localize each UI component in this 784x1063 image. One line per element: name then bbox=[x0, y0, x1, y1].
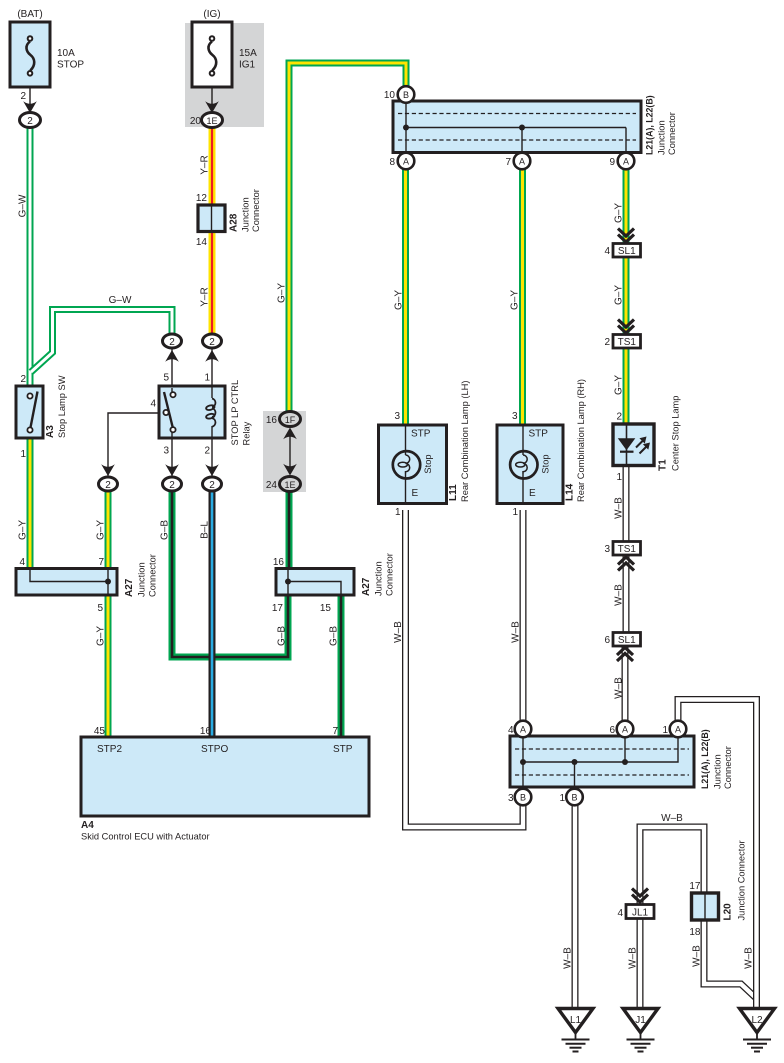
pin 1 label relay bbox=[204, 373, 210, 384]
svg-text:G–Y: G–Y bbox=[96, 520, 107, 540]
svg-text:B: B bbox=[403, 90, 409, 100]
pin 3 label relay bbox=[163, 446, 169, 457]
wire G-Y relay pin 4 branch to A27 pin 7 bbox=[105, 491, 112, 570]
svg-text:STPO: STPO bbox=[201, 744, 228, 755]
wire Y-R fuse IG1 to A28 pin 12 bbox=[209, 127, 216, 206]
svg-text:14: 14 bbox=[196, 237, 208, 248]
wire G-Y TS1 to T1 pin 2 bbox=[623, 348, 630, 425]
pin 18 label L20 bbox=[689, 927, 701, 938]
svg-text:W–B: W–B bbox=[563, 947, 574, 969]
svg-text:TS1: TS1 bbox=[618, 544, 637, 555]
svg-text:17: 17 bbox=[689, 881, 701, 892]
svg-text:2: 2 bbox=[20, 91, 26, 102]
svg-text:6: 6 bbox=[604, 635, 610, 646]
wire G-Y connector 1F to junction connector L21 pin 10 bbox=[289, 63, 406, 412]
pin 2 label T1 bbox=[616, 412, 622, 423]
svg-text:L14: L14 bbox=[565, 483, 576, 501]
node B circle pin 1 bottom JC bbox=[566, 789, 583, 806]
wire label G-Y A27 pin5 bbox=[96, 626, 107, 646]
wire W-B L21 pin 1(B) to ground L1 bbox=[572, 805, 579, 1010]
relay STOP LP CTRL bbox=[108, 349, 225, 477]
pin 1 label T1 bbox=[616, 472, 622, 483]
svg-text:STOP: STOP bbox=[57, 60, 84, 71]
arrow up into oval at relay pin 1 bbox=[205, 350, 219, 362]
svg-text:G–Y: G–Y bbox=[614, 285, 625, 305]
wire label G-Y between SL1 TS1 bbox=[614, 285, 625, 305]
svg-text:2: 2 bbox=[204, 446, 210, 457]
wire label W-B SL1 to L21 bbox=[614, 677, 625, 699]
svg-text:2: 2 bbox=[169, 480, 175, 491]
arrow up into oval at relay pin 5 bbox=[165, 350, 179, 362]
svg-text:12: 12 bbox=[196, 193, 208, 204]
svg-text:W–B: W–B bbox=[614, 497, 625, 519]
node 2 oval below relay pin 4 branch bbox=[99, 477, 118, 491]
svg-text:Junction: Junction bbox=[657, 120, 667, 155]
pin 24 label 1E bbox=[266, 480, 278, 491]
label L20 Junction Connector bbox=[723, 840, 747, 920]
svg-text:E: E bbox=[529, 488, 536, 499]
wire label W-B L14 down bbox=[511, 621, 522, 643]
pin 16 label A27 right bbox=[273, 557, 285, 568]
svg-text:G–Y: G–Y bbox=[614, 203, 625, 223]
svg-text:2: 2 bbox=[105, 480, 111, 491]
svg-text:Connector: Connector bbox=[148, 554, 158, 597]
wire G-Y A3 pin 1 to A27 pin 4 bbox=[27, 438, 34, 570]
wire Y-R A28 pin 14 to relay pin 1 bbox=[209, 231, 216, 335]
node 1E connector oval below IG fuse, pin 20 bbox=[202, 113, 223, 128]
svg-text:B: B bbox=[571, 793, 577, 803]
svg-text:Rear Combination Lamp (LH): Rear Combination Lamp (LH) bbox=[460, 381, 470, 502]
wire label W-B J1 bbox=[628, 947, 639, 969]
chevron arrows up below TS1 lower bbox=[618, 557, 634, 571]
svg-text:Connector: Connector bbox=[723, 746, 733, 789]
pin 1 label L11 bbox=[395, 507, 401, 518]
wire G-Y SL1 to TS1 pin 2 bbox=[623, 256, 630, 335]
lamp L14 Rear Combination Lamp RH bbox=[497, 425, 563, 504]
label A28 Junction Connector bbox=[229, 189, 262, 232]
fuse 10A STOP (BAT) bbox=[10, 22, 50, 114]
svg-text:Skid Control ECU with Actuator: Skid Control ECU with Actuator bbox=[81, 832, 210, 842]
svg-text:17: 17 bbox=[272, 603, 284, 614]
arrow down into oval at relay pin 3 bbox=[165, 464, 179, 476]
junction connector L21(A) L22(B) top bbox=[393, 101, 641, 153]
wire W-B SL1 to L21 pin 6(A) bbox=[622, 645, 629, 723]
double arrow link between 1F and 1E bbox=[283, 428, 297, 476]
pin 1 label L14 bbox=[512, 507, 518, 518]
pin 1 label A3 bbox=[20, 449, 26, 460]
svg-text:9: 9 bbox=[609, 157, 615, 168]
junction connector A27 left bbox=[16, 569, 117, 596]
label 10A STOP bbox=[57, 48, 84, 71]
svg-text:G–Y: G–Y bbox=[614, 375, 625, 395]
svg-text:7: 7 bbox=[505, 157, 511, 168]
svg-text:A: A bbox=[520, 725, 526, 735]
wire label G-W vertical bbox=[18, 194, 29, 217]
node A circle pin 1 bottom JC bbox=[670, 721, 687, 738]
svg-text:3: 3 bbox=[508, 793, 514, 804]
pin 7 label L21 top bbox=[505, 157, 511, 168]
chevron arrows above TS1 bbox=[618, 320, 634, 334]
svg-text:G–W: G–W bbox=[109, 295, 132, 306]
svg-text:4: 4 bbox=[604, 246, 610, 257]
wire G-W branch to relay pin 5 bbox=[31, 310, 172, 373]
wire W-B L20 pin 18 to ground L2 bbox=[704, 919, 757, 999]
wire B-L relay pin 2 to A4 pin 16 bbox=[209, 491, 216, 738]
pin 3 label L11 bbox=[394, 411, 400, 422]
svg-text:Connector: Connector bbox=[667, 112, 677, 155]
svg-text:L1: L1 bbox=[570, 1015, 582, 1026]
svg-text:3: 3 bbox=[512, 411, 518, 422]
svg-text:B: B bbox=[520, 793, 526, 803]
wire W-B T1 pin 1 to TS1 pin 3 bbox=[623, 465, 630, 543]
svg-text:10: 10 bbox=[384, 90, 396, 101]
svg-text:1: 1 bbox=[512, 507, 518, 518]
switch A3 Stop Lamp SW bbox=[16, 386, 43, 438]
svg-text:A: A bbox=[403, 157, 409, 167]
svg-text:W–B: W–B bbox=[511, 621, 522, 643]
wire label W-B right edge bbox=[744, 947, 755, 969]
svg-text:W–B: W–B bbox=[744, 947, 755, 969]
svg-text:2: 2 bbox=[604, 337, 610, 348]
svg-text:A: A bbox=[622, 725, 628, 735]
svg-text:15A: 15A bbox=[239, 48, 257, 59]
svg-text:18: 18 bbox=[689, 927, 701, 938]
pin 45 label A4 bbox=[94, 726, 106, 737]
svg-text:G–Y: G–Y bbox=[277, 283, 288, 303]
svg-text:2: 2 bbox=[169, 337, 175, 348]
connector TS1 pin 3 bbox=[613, 542, 641, 556]
svg-text:1E: 1E bbox=[284, 480, 295, 490]
wire label G-Y riser to L21 bbox=[277, 283, 288, 303]
svg-text:W–B: W–B bbox=[661, 813, 683, 824]
ECU A4 Skid Control ECU with Actuator bbox=[81, 737, 369, 816]
svg-text:STOP LP CTRL: STOP LP CTRL bbox=[230, 380, 240, 446]
pin 3 label TS1 lower bbox=[604, 544, 610, 555]
pin 5 label relay bbox=[163, 373, 169, 384]
svg-text:1E: 1E bbox=[206, 116, 217, 126]
svg-text:L21(A), L22(B): L21(A), L22(B) bbox=[700, 729, 710, 789]
svg-text:STP: STP bbox=[333, 744, 353, 755]
wire W-B TS1 to SL1 pin 6 bbox=[623, 554, 630, 634]
wire label G-Y above SL1 bbox=[614, 203, 625, 223]
svg-text:J1: J1 bbox=[635, 1015, 646, 1026]
svg-text:G–W: G–W bbox=[18, 194, 29, 217]
wire label G-Y to L11 bbox=[394, 290, 405, 310]
svg-text:(IG): (IG) bbox=[203, 9, 220, 20]
svg-text:G–B: G–B bbox=[277, 626, 288, 646]
pin 4 label relay bbox=[150, 399, 156, 410]
svg-text:W–B: W–B bbox=[614, 584, 625, 606]
label L21(A) L22(B) top Junction Connector bbox=[645, 95, 678, 155]
wire label G-Y to L14 bbox=[510, 290, 521, 310]
svg-text:W–B: W–B bbox=[614, 677, 625, 699]
connector TS1 pin 2 bbox=[613, 335, 641, 349]
fuse 15A IG1 (IG) bbox=[192, 22, 232, 114]
svg-text:A27: A27 bbox=[124, 578, 135, 597]
wire G-B relay pin 3 to A27 pin 17 bbox=[172, 491, 288, 657]
junction connector A27 right bbox=[276, 569, 354, 596]
arrow down into oval at relay pin 2 bbox=[205, 464, 219, 476]
node B circle pin 3 bottom JC bbox=[515, 789, 532, 806]
pin 1 label bottom JC A bbox=[662, 725, 668, 736]
node 1F oval pin 16 bbox=[280, 412, 301, 427]
svg-text:A: A bbox=[675, 725, 681, 735]
svg-text:Junction: Junction bbox=[374, 561, 384, 596]
wire label G-W horizontal bbox=[109, 295, 132, 306]
pin 20 label IG fuse bbox=[190, 116, 202, 127]
pin 3 label L14 bbox=[512, 411, 518, 422]
pin 14 label A28 bbox=[196, 237, 208, 248]
svg-text:Stop Lamp SW: Stop Lamp SW bbox=[57, 375, 67, 438]
pin 17 label A27 right bbox=[272, 603, 284, 614]
wire label W-B L1 bbox=[563, 947, 574, 969]
lamp L11 Rear Combination Lamp LH bbox=[379, 425, 447, 504]
node 2 oval above relay pin 1 bbox=[203, 334, 222, 348]
pin 3 label bottom JC bbox=[508, 793, 514, 804]
svg-text:15: 15 bbox=[320, 603, 332, 614]
chevron arrows up below SL1 lower bbox=[617, 648, 633, 662]
svg-text:A28: A28 bbox=[229, 213, 240, 232]
label (BAT) bbox=[17, 9, 42, 20]
wire W-B L14 pin 1 to L21 pin 4(A) bbox=[520, 510, 527, 723]
svg-text:45: 45 bbox=[94, 726, 106, 737]
wire W-B JL1 loop to L20 pin 17 bbox=[640, 827, 704, 906]
ground L2 bbox=[740, 1009, 775, 1052]
svg-text:5: 5 bbox=[163, 373, 169, 384]
svg-text:Y–R: Y–R bbox=[200, 287, 211, 306]
ground L1 bbox=[558, 1009, 593, 1052]
wire W-B JL1 to ground J1 bbox=[637, 917, 644, 1010]
label A27 left Junction Connector bbox=[124, 554, 158, 597]
label (IG) bbox=[203, 9, 220, 20]
pin 16 label 1F bbox=[266, 415, 278, 426]
gray panel connector 1F/1E bbox=[263, 411, 306, 492]
svg-text:4: 4 bbox=[508, 725, 514, 736]
svg-text:Junction: Junction bbox=[137, 562, 147, 597]
svg-text:1F: 1F bbox=[285, 415, 296, 425]
svg-text:B–L: B–L bbox=[200, 521, 211, 539]
svg-text:Junction: Junction bbox=[713, 754, 723, 789]
svg-text:G–Y: G–Y bbox=[96, 626, 107, 646]
pin 15 label A27 right bbox=[320, 603, 332, 614]
svg-text:W–B: W–B bbox=[692, 945, 703, 967]
svg-text:G–B: G–B bbox=[329, 626, 340, 646]
svg-text:2: 2 bbox=[209, 480, 215, 491]
pin 1 label bottom JC B bbox=[559, 793, 565, 804]
svg-text:Stop: Stop bbox=[541, 454, 551, 473]
svg-text:3: 3 bbox=[163, 446, 169, 457]
A4 internal pin names bbox=[97, 744, 353, 755]
junction connector L20 bbox=[692, 893, 719, 920]
node A circle pin 9 bbox=[618, 153, 635, 170]
svg-text:L20: L20 bbox=[723, 903, 734, 921]
svg-text:Connector: Connector bbox=[251, 189, 261, 232]
svg-text:JL1: JL1 bbox=[632, 908, 649, 919]
wire label G-Y above T1 bbox=[614, 375, 625, 395]
gray panel IG fuse block bbox=[185, 23, 264, 127]
pin 2 label A3 bbox=[20, 374, 26, 385]
arrow down into oval at relay pin 4 branch bbox=[101, 464, 115, 476]
svg-text:1: 1 bbox=[616, 472, 622, 483]
connector SL1 pin 4 bbox=[613, 244, 641, 258]
label A4 Skid Control ECU with Actuator bbox=[81, 820, 210, 842]
pin 4 label bottom JC bbox=[508, 725, 514, 736]
svg-text:24: 24 bbox=[266, 480, 278, 491]
svg-text:Center Stop Lamp: Center Stop Lamp bbox=[671, 396, 681, 471]
wire W-B L21 pin 1(A) to ground L2 bbox=[678, 700, 757, 1011]
node 2 connector oval below BAT fuse bbox=[20, 113, 41, 128]
pin 4 label A27 left bbox=[19, 557, 25, 568]
label L11 Rear Combination Lamp (LH) bbox=[448, 381, 470, 502]
pin 4 label JL1 bbox=[617, 908, 623, 919]
pin 7 label A4 bbox=[332, 726, 338, 737]
label L14 Rear Combination Lamp (RH) bbox=[565, 379, 587, 502]
svg-text:Relay: Relay bbox=[242, 421, 252, 445]
wire label G-B A27 pin15 bbox=[329, 626, 340, 646]
svg-text:Y–R: Y–R bbox=[200, 155, 211, 174]
svg-text:G–Y: G–Y bbox=[510, 290, 521, 310]
wire G-B connector 1E to A27 pin 16 bbox=[286, 491, 293, 570]
label A27 right Junction Connector bbox=[361, 553, 395, 596]
connector JL1 pin 4 bbox=[626, 905, 654, 919]
wire label W-B TS1 to SL1 bbox=[614, 584, 625, 606]
pin 2 label TS1 bbox=[604, 337, 610, 348]
svg-text:A4: A4 bbox=[81, 820, 94, 831]
wire G-Y L21 pin 9 to connector SL1 pin 4 bbox=[623, 169, 630, 244]
svg-text:(BAT): (BAT) bbox=[17, 9, 42, 20]
junction connector L21(A) L22(B) bottom bbox=[510, 736, 694, 789]
wire label W-B T1 to TS1 bbox=[614, 497, 625, 519]
chevron arrows above JL1 bbox=[632, 889, 648, 903]
node 1E oval pin 24 bbox=[280, 477, 301, 492]
wire G-Y L21 pin 8 to L11 pin 3 bbox=[402, 169, 409, 426]
svg-text:A3: A3 bbox=[45, 425, 56, 438]
svg-text:T1: T1 bbox=[658, 459, 669, 471]
svg-text:E: E bbox=[412, 488, 419, 499]
label 15A IG1 bbox=[239, 48, 257, 71]
wire label G-B relay pin 3 bbox=[160, 520, 171, 540]
connector SL1 pin 6 bbox=[613, 633, 641, 647]
svg-text:STP: STP bbox=[529, 429, 549, 440]
svg-text:2: 2 bbox=[27, 116, 33, 127]
svg-text:2: 2 bbox=[209, 337, 215, 348]
svg-text:5: 5 bbox=[97, 603, 103, 614]
label A3 Stop Lamp SW bbox=[45, 375, 67, 438]
svg-text:3: 3 bbox=[604, 544, 610, 555]
wire label W-B horizontal JL1 loop bbox=[661, 813, 683, 824]
wire G-Y A27 pin 5 to A4 pin 45 bbox=[105, 594, 112, 738]
wire label W-B L20 bbox=[692, 945, 703, 967]
svg-text:Junction: Junction bbox=[241, 197, 251, 232]
wire G-W fuse STOP to A3 pin 2 bbox=[27, 127, 34, 387]
svg-text:8: 8 bbox=[389, 157, 395, 168]
pin 7 label A27 left bbox=[98, 557, 104, 568]
wire label Y-R lower bbox=[200, 287, 211, 306]
svg-text:SL1: SL1 bbox=[618, 246, 636, 257]
svg-text:4: 4 bbox=[19, 557, 25, 568]
pin 12 label A28 bbox=[196, 193, 208, 204]
svg-text:1: 1 bbox=[662, 725, 668, 736]
pin 8 label L21 top bbox=[389, 157, 395, 168]
node A circle pin 4 bottom JC bbox=[515, 721, 532, 738]
svg-text:3: 3 bbox=[394, 411, 400, 422]
label L21(A) L22(B) bottom Junction Connector bbox=[700, 729, 733, 789]
svg-text:A27: A27 bbox=[361, 577, 372, 596]
pin 6 label bottom JC bbox=[609, 725, 615, 736]
node B circle pin 10 bbox=[398, 86, 415, 103]
junction connector A28 bbox=[198, 205, 225, 232]
svg-text:STP2: STP2 bbox=[97, 744, 122, 755]
svg-text:W–B: W–B bbox=[628, 947, 639, 969]
svg-text:6: 6 bbox=[609, 725, 615, 736]
pin 17 label L20 bbox=[689, 881, 701, 892]
svg-text:L21(A), L22(B): L21(A), L22(B) bbox=[645, 95, 655, 155]
wire label G-Y A3 to A27 bbox=[18, 520, 29, 540]
svg-text:4: 4 bbox=[150, 399, 156, 410]
svg-text:2: 2 bbox=[20, 374, 26, 385]
svg-text:L2: L2 bbox=[751, 1015, 763, 1026]
svg-text:7: 7 bbox=[98, 557, 104, 568]
lamp L14 internal labels STP Stop E bbox=[529, 429, 551, 500]
ground J1 bbox=[623, 1009, 658, 1052]
svg-text:Junction Connector: Junction Connector bbox=[737, 840, 747, 920]
svg-text:G–Y: G–Y bbox=[394, 290, 405, 310]
wire G-Y L21 pin 7 to L14 pin 3 bbox=[519, 169, 526, 426]
node 2 oval above relay pin 5 bbox=[163, 334, 182, 348]
svg-text:Rear Combination Lamp (RH): Rear Combination Lamp (RH) bbox=[576, 379, 586, 502]
svg-text:Stop: Stop bbox=[423, 454, 433, 473]
lamp L11 internal labels STP Stop E bbox=[411, 429, 433, 500]
node 2 oval below relay pin 2 bbox=[203, 477, 222, 491]
wire label B-L relay pin 2 bbox=[200, 521, 211, 539]
chevron arrows above SL1 bbox=[618, 229, 634, 243]
svg-text:Connector: Connector bbox=[385, 553, 395, 596]
svg-text:A: A bbox=[519, 157, 525, 167]
svg-text:STP: STP bbox=[411, 429, 431, 440]
svg-text:A: A bbox=[623, 157, 629, 167]
pin 16 label A4 bbox=[200, 726, 212, 737]
pin 4 label SL1 bbox=[604, 246, 610, 257]
svg-text:1: 1 bbox=[559, 793, 565, 804]
pin 6 label SL1 lower bbox=[604, 635, 610, 646]
svg-text:10A: 10A bbox=[57, 48, 75, 59]
svg-text:G–B: G–B bbox=[160, 520, 171, 540]
pin 10 label L21 top bbox=[384, 90, 396, 101]
svg-text:W–B: W–B bbox=[393, 621, 404, 643]
pin 2 label relay bbox=[204, 446, 210, 457]
svg-text:16: 16 bbox=[266, 415, 278, 426]
svg-text:4: 4 bbox=[617, 908, 623, 919]
svg-text:SL1: SL1 bbox=[618, 635, 636, 646]
svg-text:1: 1 bbox=[395, 507, 401, 518]
node A circle pin 7 bbox=[514, 153, 531, 170]
node A circle pin 8 bbox=[398, 153, 415, 170]
node A circle pin 6 bottom JC bbox=[617, 721, 634, 738]
svg-text:20: 20 bbox=[190, 116, 202, 127]
svg-text:1: 1 bbox=[20, 449, 26, 460]
svg-text:TS1: TS1 bbox=[618, 337, 637, 348]
wire G-B A27 pin 15 to A4 pin 7 bbox=[338, 594, 345, 738]
svg-text:IG1: IG1 bbox=[239, 60, 256, 71]
wire label G-B 1E to A27 bbox=[277, 626, 288, 646]
pin 9 label L21 top bbox=[609, 157, 615, 168]
pin 2 label BAT fuse bbox=[20, 91, 26, 102]
svg-text:G–Y: G–Y bbox=[18, 520, 29, 540]
svg-text:1: 1 bbox=[204, 373, 210, 384]
svg-text:2: 2 bbox=[616, 412, 622, 423]
label T1 Center Stop Lamp bbox=[658, 396, 681, 471]
svg-text:16: 16 bbox=[200, 726, 212, 737]
